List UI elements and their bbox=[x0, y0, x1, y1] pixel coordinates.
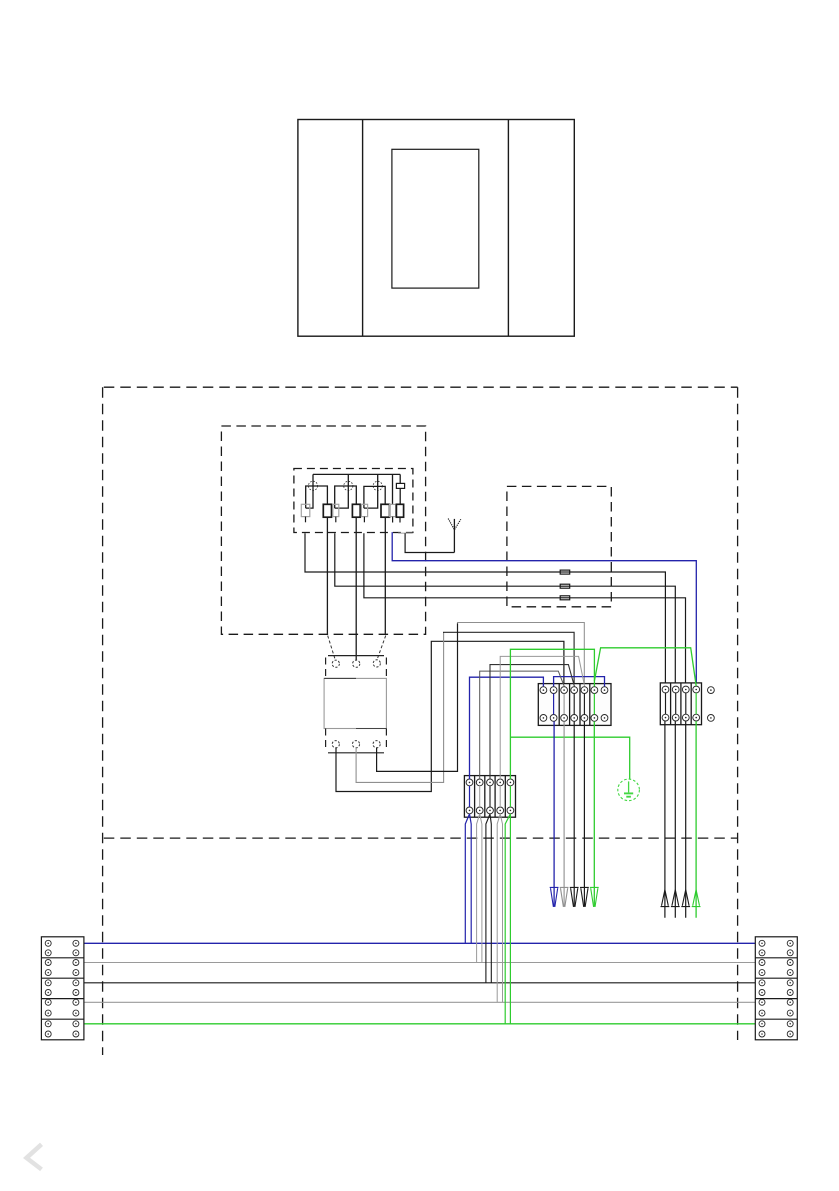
wire K2 drop to contactor bbox=[355, 517, 357, 660]
wire through X2 terminal 5 bbox=[583, 694, 585, 715]
arrow down black2 bbox=[580, 887, 589, 907]
wire fuse F0 to contact N bbox=[399, 488, 401, 504]
arrow up k2 bbox=[671, 890, 680, 907]
CT circle phase L2 bbox=[344, 481, 353, 490]
right terminal block X3 body bbox=[660, 683, 701, 725]
wire through X2 terminal 2 bbox=[553, 694, 555, 715]
wire green X2-6 to X3-4 bbox=[594, 648, 696, 686]
bus line black bbox=[76, 982, 762, 984]
interruption tick gray bbox=[398, 532, 412, 534]
wire through X3 terminal 2 bbox=[675, 693, 677, 714]
wire through X3 terminal 1 bbox=[665, 693, 667, 714]
navigation chevron bbox=[27, 1144, 42, 1169]
contactor terminal T3 bbox=[373, 741, 380, 748]
wire through X4 terminal 5 bbox=[509, 786, 511, 807]
panel divider right bbox=[507, 120, 509, 337]
X4 terminal circles top row bbox=[466, 779, 473, 786]
contact rect K1 bbox=[323, 504, 331, 517]
X6 terminal circles bbox=[759, 940, 793, 1037]
wire contact link L1 bbox=[306, 486, 328, 508]
feeder unit dashed box bbox=[221, 426, 425, 634]
stub below K4 bbox=[399, 517, 401, 522]
contactor body bbox=[324, 678, 386, 728]
spare terminal circle top bbox=[708, 687, 715, 694]
fuse group dashed box bbox=[507, 486, 611, 606]
wire bus drop L2 bbox=[335, 474, 349, 508]
trip frame rect G3 bbox=[361, 504, 367, 516]
contactor terminal T2 bbox=[352, 741, 359, 748]
wire X4-3 taps to black bus bbox=[486, 814, 491, 983]
contact rect K3 bbox=[381, 504, 390, 517]
arrow down green bbox=[590, 887, 599, 907]
panel enclosure outer rectangle bbox=[298, 120, 574, 337]
wire fused line 2 bbox=[335, 533, 676, 686]
stub below G2 bbox=[335, 517, 337, 523]
contactor terminal A1 bbox=[332, 660, 339, 667]
wire X4-2 taps to gray bus bbox=[477, 814, 482, 963]
wire X4-5 taps to green bus bbox=[505, 814, 510, 1024]
arrow down blue bbox=[550, 887, 559, 907]
contactor K1M top terminal box bbox=[328, 655, 384, 657]
panel divider left bbox=[362, 120, 364, 337]
left terminal strip X5 bbox=[41, 937, 84, 1040]
bus line gray2 bbox=[76, 1001, 762, 1003]
stub below G1 bbox=[305, 517, 307, 523]
dashed diagonal link L3 to contactor A3 bbox=[377, 636, 386, 660]
trip frame rect G4 bbox=[390, 504, 396, 516]
arrow down black1 bbox=[570, 887, 579, 907]
X5 terminal circles bbox=[45, 940, 79, 1037]
X3 terminal circles bottom row bbox=[662, 714, 669, 721]
wire X3-1 down bbox=[664, 721, 666, 918]
wire K3 drop to contactor bbox=[384, 517, 386, 634]
CT circle phase L3 bbox=[373, 481, 382, 490]
wire X4-2 feed to X2-3 bbox=[480, 671, 565, 779]
wire X3-2 down bbox=[674, 721, 676, 918]
stub below G3 bbox=[363, 517, 365, 523]
wire through X3 terminal 3 bbox=[685, 693, 687, 714]
wire X3-4 down green bbox=[695, 721, 697, 918]
wire bus drop N to trip frame bbox=[392, 474, 394, 504]
bottom middle terminal block X4 body bbox=[464, 776, 515, 818]
wire X2-5 down arrow black bbox=[583, 721, 585, 906]
wire X4-4 feed to X2-5 bbox=[500, 656, 584, 779]
bus line blue bbox=[76, 942, 762, 944]
antenna symbol bbox=[448, 518, 461, 552]
wire T3 to middle block terminal 5 bbox=[377, 623, 458, 771]
cabinet outline dashed box bbox=[103, 387, 738, 1055]
bus line green bbox=[76, 1023, 762, 1025]
wire through X4 terminal 3 bbox=[489, 786, 491, 807]
wire X2-6 down arrow green bbox=[593, 721, 595, 906]
wire X2-3 down arrow gray bbox=[563, 721, 565, 906]
earth electrode symbol bbox=[618, 779, 640, 801]
wire bus drop L3 bbox=[364, 474, 378, 508]
contactor terminal A2 bbox=[353, 660, 360, 667]
wire X2-2 down arrow blue bbox=[553, 721, 555, 906]
X2 terminal circles top row bbox=[540, 687, 547, 694]
bus line gray1 bbox=[76, 962, 762, 964]
wire X4-1 taps to blue bus bbox=[465, 814, 471, 943]
wire through X3 terminal 4 bbox=[695, 693, 697, 714]
dashed diagonal link L1 to contactor A1 bbox=[328, 636, 336, 661]
wire bus drop to fuse F0 bbox=[399, 474, 401, 483]
panel inner door rectangle bbox=[392, 149, 479, 288]
X3 terminal circles top row bbox=[662, 686, 669, 693]
wire through X2 terminal 3 bbox=[563, 694, 565, 715]
stub below G4 bbox=[392, 517, 394, 523]
wire fused line 3 bbox=[364, 533, 686, 686]
fuse F3 bbox=[560, 596, 570, 600]
contactor terminal T1 bbox=[332, 741, 339, 748]
contact rect K4 bbox=[396, 504, 403, 517]
wire T1 to middle block terminal 3 bbox=[336, 641, 564, 791]
fuse F1 bbox=[560, 570, 570, 574]
fuse F2 bbox=[560, 584, 570, 588]
right terminal strip X6 bbox=[755, 937, 797, 1040]
wire fused line 1 bbox=[305, 533, 665, 686]
wire N blue riser bbox=[392, 532, 696, 686]
breaker Q1 top bus bbox=[313, 473, 400, 475]
contactor terminal A3 bbox=[373, 660, 380, 667]
wire through X4 terminal 1 bbox=[469, 786, 471, 807]
wire green PE branch to earth bbox=[510, 737, 629, 779]
wire bus drop L1 bbox=[306, 474, 313, 508]
wire green X4-5 to X2-6 bbox=[510, 649, 594, 779]
contactor bottom terminal box bbox=[328, 752, 384, 754]
X4 terminal circles bottom row bbox=[466, 807, 473, 814]
fuse F0 rectangle bbox=[396, 483, 404, 488]
wire X2-4 down arrow black bbox=[573, 721, 575, 906]
arrow up k3 bbox=[681, 890, 690, 907]
wire blue X4-1 to X2-1 bbox=[470, 677, 544, 779]
wire contact link L2 bbox=[335, 486, 357, 508]
wire X4-3 feed to X2-4 bbox=[490, 665, 574, 780]
wire T2 to middle block terminal 4 bbox=[356, 633, 444, 782]
wire through X2 terminal 6 bbox=[593, 694, 595, 715]
trip frame rect G1 bbox=[301, 504, 310, 516]
wire contact link L3 bbox=[364, 486, 385, 508]
X2 terminal circles bottom row bbox=[540, 715, 547, 722]
wire through X2 terminal 4 bbox=[573, 694, 575, 715]
wire X3-3 down bbox=[685, 721, 687, 918]
arrow up green bbox=[692, 890, 701, 907]
arrow up k1 bbox=[661, 890, 670, 907]
wire antenna to contact N stub bbox=[405, 533, 454, 552]
wire blue bridge X2-2 to X2-7 bbox=[554, 677, 605, 687]
CT circle phase L1 bbox=[308, 481, 317, 490]
trip frame rect G2 bbox=[333, 504, 339, 516]
contact rect K2 bbox=[352, 504, 360, 517]
arrow down gray bbox=[560, 887, 569, 907]
circuit breaker Q1 dashed box bbox=[294, 469, 413, 533]
middle terminal block X2 body bbox=[538, 684, 611, 726]
spare terminal circle bottom bbox=[708, 715, 715, 722]
wire through X4 terminal 4 bbox=[499, 786, 501, 807]
wire X4-4 taps to gray bus bbox=[497, 814, 502, 1002]
wire through X4 terminal 2 bbox=[479, 786, 481, 807]
wire K1 drop to contactor bbox=[326, 517, 328, 634]
